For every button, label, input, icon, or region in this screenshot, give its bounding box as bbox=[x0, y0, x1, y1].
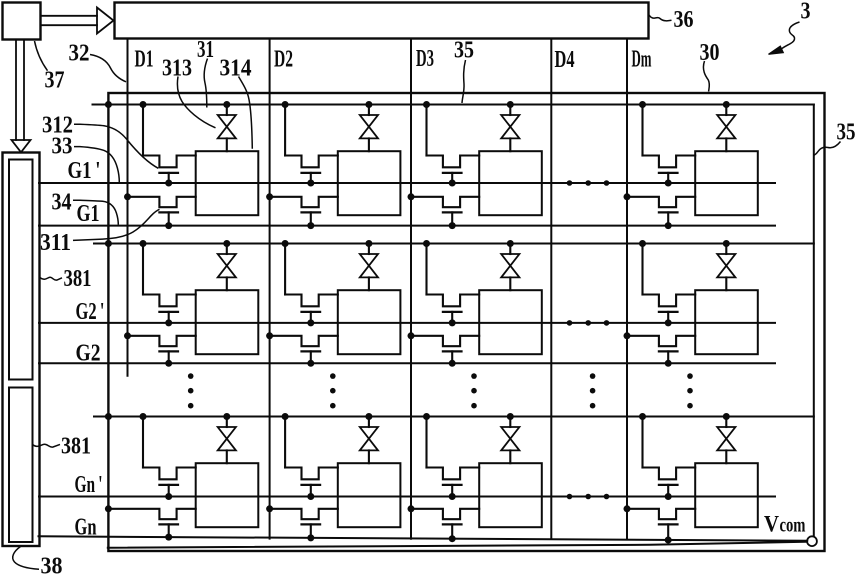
svg-text:31: 31 bbox=[197, 37, 214, 63]
common wire row 2 bbox=[94, 243, 814, 245]
storage TFT 312 channel electrodes, row 2 col Dm bbox=[643, 295, 696, 307]
junction: switching TFT gate / Gn line, col D3 bbox=[449, 535, 456, 542]
pixel electrode 314, row 2 col Dm bbox=[695, 290, 758, 354]
svg-text:G1: G1 bbox=[77, 201, 100, 227]
switching TFT gate electrode, row n col D3 bbox=[443, 523, 462, 525]
switching TFT gate electrode, row n col D2 bbox=[302, 523, 321, 525]
junction: switching TFT gate / Gn line, col Dm bbox=[665, 537, 672, 544]
LCD panel outline 30 bbox=[108, 93, 824, 551]
leader for label 38 bbox=[13, 547, 39, 570]
switching TFT gate electrode, row 2 col Dm bbox=[659, 350, 678, 352]
storage TFT gate lead, row 2 col D1 bbox=[168, 312, 170, 323]
leader for label 34 to gate line G1 bbox=[73, 200, 118, 225]
svg-text:32: 32 bbox=[69, 41, 90, 67]
junction: branch / common wire row 1 col D2 bbox=[282, 101, 289, 108]
junction: storage TFT gate / Gn' line, col D3 bbox=[449, 493, 456, 500]
switching TFT gate electrode, row 1 col D1 bbox=[159, 211, 178, 213]
data driver box 36 bbox=[115, 3, 649, 39]
junction: switching TFT source / data line D1 row 2 bbox=[124, 332, 131, 339]
Vcom terminal node bbox=[807, 536, 817, 546]
ellipsis dots: repeated columns between D4 and Dm bbox=[567, 180, 573, 186]
wire branch from common wire row 2, col D1 bbox=[142, 244, 144, 295]
pixel electrode 314, row 2 col D1 bbox=[196, 290, 259, 354]
svg-text:V: V bbox=[764, 512, 779, 537]
svg-text:311: 311 bbox=[40, 230, 71, 256]
svg-text:Gn: Gn bbox=[75, 515, 97, 541]
storage TFT gate electrode, row 2 col D3 bbox=[443, 311, 462, 313]
switching TFT 311 channel electrodes, row 2 col Dm bbox=[627, 336, 695, 346]
switching TFT 311 channel electrodes, row 1 col Dm bbox=[627, 197, 695, 207]
storage TFT gate electrode, row 2 col Dm bbox=[659, 311, 678, 313]
leader for label 35 (right) to active area edge bbox=[814, 142, 841, 156]
liquid crystal cell 313 (hourglass), row 2 col D3 bbox=[509, 244, 511, 255]
junction: switching TFT source / data line D1 row n bbox=[105, 505, 112, 512]
storage TFT 312 channel electrodes, row n col Dm bbox=[643, 468, 696, 480]
junction: storage TFT gate / G2' line, col D2 bbox=[307, 319, 314, 326]
leader for label 33 to gate line G1' bbox=[74, 147, 119, 183]
junction: branch / common wire row n col Dm bbox=[639, 413, 646, 420]
junction: branch / common wire row 2 col D1 bbox=[140, 240, 147, 247]
junction: branch / common wire row n col D2 bbox=[282, 413, 289, 420]
junction: branch / common wire row n col D1 bbox=[140, 413, 147, 420]
junction: switching TFT source / data line D2 row n bbox=[266, 505, 273, 512]
liquid crystal cell 313 (hourglass), row n col D1 bbox=[226, 417, 228, 428]
junction: branch / common wire row 2 col D2 bbox=[282, 240, 289, 247]
svg-text:3: 3 bbox=[801, 0, 811, 25]
horizontal bus arrow from controller to data driver bbox=[41, 15, 98, 17]
junction: storage TFT gate / G2' line, col D1 bbox=[165, 319, 172, 326]
storage TFT 312 channel electrodes, row 1 col D3 bbox=[427, 156, 480, 168]
junction: storage TFT gate / G1' line, col Dm bbox=[665, 180, 672, 187]
storage TFT gate electrode, row n col D2 bbox=[302, 484, 321, 486]
storage TFT gate lead, row 1 col D2 bbox=[310, 173, 312, 183]
liquid crystal cell 313 (hourglass), row n col Dm bbox=[725, 417, 727, 428]
leader for label 30 to panel outline bbox=[703, 61, 709, 92]
junction: storage TFT gate / G1' line, col D3 bbox=[449, 180, 456, 187]
leader for label 37 bbox=[35, 41, 48, 71]
Vcom bus line, bottom edge bbox=[108, 542, 806, 548]
storage TFT gate lead, row 2 col D3 bbox=[451, 312, 453, 323]
wire branch from common wire row 2, col D3 bbox=[425, 244, 427, 295]
liquid crystal cell 313 (hourglass), row 1 col Dm bbox=[725, 105, 727, 116]
storage TFT gate electrode, row n col D1 bbox=[159, 484, 178, 486]
switching TFT gate lead, row 1 col D3 bbox=[451, 212, 453, 225]
junction: switching TFT source / data line Dm row n bbox=[624, 505, 631, 512]
switching TFT gate lead, row n col D1 bbox=[168, 524, 170, 537]
svg-text:com: com bbox=[780, 515, 806, 537]
junction: switching TFT gate / G2 line, col D2 bbox=[307, 360, 314, 367]
storage TFT gate lead, row 1 col D3 bbox=[451, 173, 453, 183]
leader for label 381 (upper) bbox=[40, 277, 62, 280]
junction: wire row1 / panel left edge bbox=[105, 101, 112, 108]
junction: switching TFT gate / G1 line, col D2 bbox=[307, 222, 314, 229]
common wire row n bbox=[94, 416, 814, 418]
storage TFT 312 channel electrodes, row n col D1 bbox=[143, 468, 196, 480]
svg-text:Dm: Dm bbox=[632, 47, 652, 73]
gate driver IC 381 (lower) bbox=[9, 388, 33, 543]
junction: switching TFT source / data line D3 row n bbox=[408, 505, 415, 512]
storage TFT gate lead, row n col Dm bbox=[667, 485, 669, 497]
liquid crystal cell 313 (hourglass), row n col D2 bbox=[368, 417, 370, 428]
svg-text:313: 313 bbox=[162, 56, 192, 82]
leader for label 313 to LC symbol bbox=[177, 77, 215, 128]
junction: branch / common wire row 2 col Dm bbox=[639, 240, 646, 247]
storage TFT 312 channel electrodes, row 2 col D3 bbox=[427, 295, 480, 307]
svg-text:35: 35 bbox=[837, 120, 855, 146]
junction: wire row n / panel left edge bbox=[105, 413, 112, 420]
switching TFT gate lead, row 2 col D2 bbox=[310, 351, 312, 363]
liquid crystal cell 313 (hourglass), row 2 col D2 bbox=[368, 244, 370, 255]
junction: storage TFT gate / Gn' line, col Dm bbox=[665, 493, 672, 500]
switching TFT 311 channel electrodes, row 2 col D3 bbox=[411, 336, 479, 346]
junction: switching TFT source / data line D2 row 1 bbox=[266, 193, 273, 200]
data line D2 bbox=[269, 39, 271, 539]
pixel electrode 314, row 1 col D1 bbox=[196, 151, 259, 215]
svg-text:381: 381 bbox=[64, 266, 92, 292]
storage TFT 312 channel electrodes, row 2 col D2 bbox=[285, 295, 338, 307]
liquid crystal cell 313 (hourglass), row 1 col D3 bbox=[509, 105, 511, 116]
switching TFT gate electrode, row 1 col D2 bbox=[302, 211, 321, 213]
pixel electrode 314, row n col D1 bbox=[196, 463, 259, 527]
junction: storage TFT gate / G2' line, col Dm bbox=[665, 319, 672, 326]
junction: switching TFT gate / Gn line, col D1 bbox=[165, 534, 172, 541]
svg-text:37: 37 bbox=[45, 68, 65, 94]
wire branch from common wire row 2, col Dm bbox=[641, 244, 643, 295]
storage TFT 312 channel electrodes, row n col D3 bbox=[427, 468, 480, 480]
wire branch from common wire row n, col D2 bbox=[284, 417, 286, 468]
storage TFT 312 channel electrodes, row 1 col D2 bbox=[285, 156, 338, 168]
junction: storage TFT gate / G2' line, col D3 bbox=[449, 319, 456, 326]
svg-text:G2 ': G2 ' bbox=[76, 299, 105, 325]
switching TFT 311 channel electrodes, row n col Dm bbox=[627, 509, 695, 519]
storage TFT gate electrode, row 1 col D3 bbox=[443, 172, 462, 174]
leader for label 36 bbox=[649, 15, 672, 21]
gate line Gn' bbox=[39, 496, 775, 498]
data line D4 bbox=[550, 39, 552, 540]
switching TFT 311 channel electrodes, row 2 col D2 bbox=[270, 336, 338, 346]
junction: branch / common wire row 1 col D3 bbox=[423, 101, 430, 108]
junction: storage TFT gate / Gn' line, col D1 bbox=[165, 493, 172, 500]
switching TFT 311 channel electrodes, row 2 col D1 bbox=[128, 336, 196, 346]
storage TFT 312 channel electrodes, row 2 col D1 bbox=[143, 295, 196, 307]
wire branch from common wire row 2, col D2 bbox=[284, 244, 286, 295]
wire branch from common wire row n, col Dm bbox=[641, 417, 643, 468]
junction: branch / common wire row 2 col D3 bbox=[423, 240, 430, 247]
switching TFT gate lead, row 2 col Dm bbox=[667, 351, 669, 363]
switching TFT 311 channel electrodes, row 1 col D3 bbox=[411, 197, 479, 207]
storage TFT 312 channel electrodes, row 1 col D1 bbox=[143, 156, 196, 168]
junction: storage TFT gate / G1' line, col D1 bbox=[165, 180, 172, 187]
pixel electrode 314, row 2 col D2 bbox=[338, 290, 401, 354]
storage TFT 312 channel electrodes, row 1 col Dm bbox=[643, 156, 696, 168]
svg-text:30: 30 bbox=[700, 40, 720, 66]
liquid crystal cell 313 (hourglass), row 2 col D1 bbox=[226, 244, 228, 255]
junction: switching TFT source / data line D1 row 1 bbox=[124, 193, 131, 200]
junction: switching TFT gate / G1 line, col D3 bbox=[449, 222, 456, 229]
gate line G1 bbox=[39, 225, 775, 227]
gate driver outer box 38 bbox=[3, 153, 40, 547]
leader for label 312 to storage TFT bbox=[74, 124, 158, 168]
data line D1 bbox=[127, 39, 129, 376]
data line D3 bbox=[410, 39, 412, 539]
switching TFT gate electrode, row n col D1 bbox=[159, 523, 178, 525]
storage TFT gate electrode, row 2 col D2 bbox=[302, 311, 321, 313]
liquid crystal cell 313 (hourglass), row 1 col D1 bbox=[226, 105, 228, 116]
svg-text:G2: G2 bbox=[76, 341, 101, 367]
gate line G2 bbox=[39, 362, 775, 364]
junction: switching TFT source / data line D3 row 2 bbox=[408, 332, 415, 339]
svg-text:38: 38 bbox=[41, 554, 63, 575]
liquid crystal cell 313 (hourglass), row 2 col Dm bbox=[725, 244, 727, 255]
svg-text:G1 ': G1 ' bbox=[68, 158, 101, 184]
switching TFT gate electrode, row n col Dm bbox=[659, 523, 678, 525]
switching TFT gate electrode, row 1 col Dm bbox=[659, 211, 678, 213]
junction: branch / common wire row 1 col D1 bbox=[140, 101, 147, 108]
junction: switching TFT source / data line D2 row 2 bbox=[266, 332, 273, 339]
storage TFT gate lead, row 2 col D2 bbox=[310, 312, 312, 323]
junction: switching TFT gate / Gn line, col D2 bbox=[307, 534, 314, 541]
switching TFT gate lead, row n col D3 bbox=[451, 524, 453, 538]
wire branch from common wire row n, col D1 bbox=[142, 417, 144, 468]
junction: branch / common wire row n col D3 bbox=[423, 413, 430, 420]
switching TFT gate electrode, row 2 col D1 bbox=[159, 350, 178, 352]
storage TFT gate lead, row n col D3 bbox=[451, 485, 453, 497]
storage TFT 312 channel electrodes, row n col D2 bbox=[285, 468, 338, 480]
junction: switching TFT gate / G2 line, col D1 bbox=[165, 360, 172, 367]
svg-text:314: 314 bbox=[220, 56, 252, 82]
svg-text:Gn ': Gn ' bbox=[75, 472, 103, 498]
junction: switching TFT source / data line D3 row 1 bbox=[408, 193, 415, 200]
pixel electrode 314, row 2 col D3 bbox=[479, 290, 542, 354]
pixel electrode 314, row 1 col Dm bbox=[695, 151, 758, 215]
switching TFT gate lead, row 1 col D1 bbox=[168, 212, 170, 225]
switching TFT 311 channel electrodes, row 1 col D2 bbox=[270, 197, 338, 207]
storage TFT gate electrode, row 1 col D1 bbox=[159, 172, 178, 174]
switching TFT gate lead, row 2 col D1 bbox=[168, 351, 170, 363]
junction: switching TFT gate / G2 line, col Dm bbox=[665, 360, 672, 367]
svg-text:D2: D2 bbox=[274, 47, 293, 73]
switching TFT gate lead, row 1 col Dm bbox=[667, 212, 669, 225]
storage TFT gate lead, row n col D1 bbox=[168, 485, 170, 497]
leader for label 381 (lower) bbox=[33, 444, 61, 447]
storage TFT gate electrode, row n col Dm bbox=[659, 484, 678, 486]
wire branch from common wire row n, col D3 bbox=[425, 417, 427, 468]
gate driver IC 381 (upper) bbox=[9, 160, 33, 380]
wire branch from common wire row 1, col D3 bbox=[425, 105, 427, 156]
switching TFT gate lead, row 2 col D3 bbox=[451, 351, 453, 363]
wire branch from common wire row 1, col D2 bbox=[284, 105, 286, 156]
arrow leader for figure number 3 bbox=[782, 22, 800, 49]
svg-text:33: 33 bbox=[52, 134, 73, 160]
junction: storage TFT gate / G1' line, col D2 bbox=[307, 180, 314, 187]
storage TFT gate lead, row 1 col Dm bbox=[667, 173, 669, 183]
junction: switching TFT gate / G1 line, col Dm bbox=[665, 222, 672, 229]
svg-text:34: 34 bbox=[52, 190, 72, 216]
switching TFT 311 channel electrodes, row n col D2 bbox=[270, 509, 338, 519]
switching TFT 311 channel electrodes, row n col D1 bbox=[108, 509, 195, 519]
storage TFT gate electrode, row 1 col D2 bbox=[302, 172, 321, 174]
junction: switching TFT gate / G1 line, col D1 bbox=[165, 222, 172, 229]
gate line G2' bbox=[39, 322, 775, 324]
junction: wire row2 / panel left edge bbox=[105, 240, 112, 247]
storage TFT gate electrode, row n col D3 bbox=[443, 484, 462, 486]
pixel electrode 314, row 1 col D2 bbox=[338, 151, 401, 215]
gate line G1' bbox=[39, 182, 775, 184]
switching TFT gate lead, row 1 col D2 bbox=[310, 212, 312, 225]
switching TFT 311 channel electrodes, row n col D3 bbox=[411, 509, 479, 519]
switching TFT 311 channel electrodes, row 1 col D1 bbox=[128, 197, 196, 207]
leader for label 311 to switching TFT bbox=[73, 209, 160, 240]
pixel electrode 314, row n col D3 bbox=[479, 463, 542, 527]
common wire row 1 (Vcom top bus) bbox=[93, 104, 814, 106]
storage TFT gate lead, row 1 col D1 bbox=[168, 173, 170, 183]
svg-text:D3: D3 bbox=[416, 46, 434, 72]
pixel electrode 314, row 1 col D3 bbox=[479, 151, 542, 215]
storage TFT gate lead, row n col D2 bbox=[310, 485, 312, 497]
leader for label 31 to pixel bbox=[204, 59, 207, 108]
switching TFT gate electrode, row 1 col D3 bbox=[443, 211, 462, 213]
liquid crystal cell 313 (hourglass), row n col D3 bbox=[509, 417, 511, 428]
svg-text:D1: D1 bbox=[135, 47, 154, 73]
wire branch from common wire row 1, col Dm bbox=[641, 105, 643, 156]
pixel electrode 314, row n col Dm bbox=[695, 463, 758, 527]
leader for label 314 to pixel electrode bbox=[239, 77, 253, 149]
gate line Gn (runs to Vcom corner) bbox=[39, 536, 808, 541]
vertical bus arrow from controller to gate driver bbox=[15, 40, 17, 140]
storage TFT gate electrode, row 2 col D1 bbox=[159, 311, 178, 313]
timing controller box (unlabeled box, ref 37) bbox=[3, 3, 41, 40]
svg-text:381: 381 bbox=[61, 434, 91, 460]
junction: switching TFT source / data line Dm row 1 bbox=[624, 193, 631, 200]
storage TFT gate lead, row 2 col Dm bbox=[667, 312, 669, 323]
data line Dm bbox=[626, 39, 628, 540]
leader for label 35 (top) to active area bbox=[462, 60, 466, 103]
switching TFT gate electrode, row 2 col D2 bbox=[302, 350, 321, 352]
svg-text:35: 35 bbox=[454, 38, 474, 64]
ellipsis dots: repeated rows between G2 and Gn bbox=[188, 373, 194, 379]
leader for label 32 to data line D1 bbox=[90, 55, 126, 82]
svg-text:D4: D4 bbox=[555, 47, 575, 73]
storage TFT gate electrode, row 1 col Dm bbox=[659, 172, 678, 174]
svg-text:36: 36 bbox=[674, 7, 694, 33]
switching TFT gate lead, row n col D2 bbox=[310, 524, 312, 538]
liquid crystal cell 313 (hourglass), row 1 col D2 bbox=[368, 105, 370, 116]
switching TFT gate electrode, row 2 col D3 bbox=[443, 350, 462, 352]
Vcom bus line, right edge of active area 35 bbox=[813, 105, 815, 537]
junction: branch / common wire row 1 col Dm bbox=[639, 101, 646, 108]
switching TFT gate lead, row n col Dm bbox=[667, 524, 669, 540]
junction: storage TFT gate / Gn' line, col D2 bbox=[307, 493, 314, 500]
wire branch from common wire row 1, col D1 bbox=[142, 105, 144, 156]
junction: switching TFT source / data line Dm row 2 bbox=[624, 332, 631, 339]
junction: switching TFT gate / G2 line, col D3 bbox=[449, 360, 456, 367]
pixel electrode 314, row n col D2 bbox=[338, 463, 401, 527]
